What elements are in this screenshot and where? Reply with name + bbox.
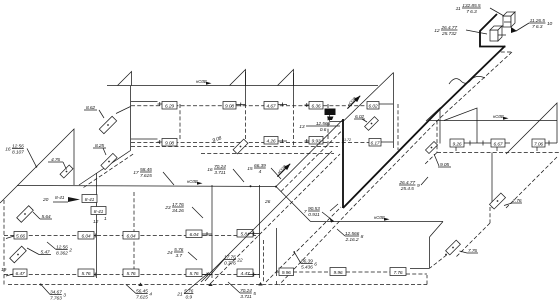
svg-text:нОЗВ: нОЗВ [196, 79, 207, 84]
radiator 6.67 [491, 139, 505, 147]
svg-text:5: 5 [253, 291, 256, 297]
svg-text:3.711: 3.711 [214, 170, 226, 176]
wire row dashed rb2 [406, 273, 427, 275]
svg-text:3: 3 [63, 293, 66, 299]
svg-text:16: 16 [207, 167, 213, 173]
pipe stub valve M3 [305, 104, 310, 106]
svg-text:4.47: 4.47 [240, 271, 249, 277]
svg-text:22: 22 [236, 258, 243, 264]
pipe stub valve M1 [236, 104, 246, 106]
radiator panel +76 wall [60, 165, 73, 178]
radiator 6.47 [13, 269, 27, 277]
wire H1 supply header top [107, 85, 378, 87]
flow arrow junction 1 [208, 283, 212, 287]
wire right return corner (dashed) [425, 153, 437, 165]
svg-text:21: 21 [176, 292, 183, 298]
label 8.62 [84, 105, 97, 111]
radiator 4.47 [237, 269, 253, 277]
svg-text:5.76: 5.76 [126, 271, 135, 277]
wire H2 supply header left block [17, 186, 276, 187]
riser x180 dashed [179, 104, 181, 141]
pipe branch S1 [276, 120, 343, 187]
label 9.05 [438, 162, 451, 168]
wire riser diag branch dashed [84, 154, 135, 188]
elevator unit [325, 109, 336, 116]
svg-text:9: 9 [417, 183, 420, 189]
wire rb connector a [464, 142, 491, 144]
radiator panel 9.05 [426, 142, 438, 154]
riser x492 [491, 153, 493, 207]
wall triangle T6 [506, 103, 557, 154]
label 3 section [41, 285, 66, 302]
radiator 9.96 [330, 268, 346, 276]
pipe stub valve M6 [305, 140, 310, 142]
pipe stub valve L1 [202, 233, 212, 235]
flow label on H2 [187, 179, 203, 185]
svg-text:9.08: 9.08 [225, 103, 234, 109]
wire H3 header [311, 221, 444, 223]
radiator 6.04 a [78, 232, 94, 240]
radiator +67 [264, 102, 278, 110]
svg-text:7: 7 [304, 209, 307, 215]
label 5 section [228, 282, 256, 300]
svg-text:11: 11 [456, 6, 461, 12]
pipe main return D2 (dashed) [279, 52, 512, 285]
flow arrow junction 2 [258, 282, 262, 286]
wire P5 stub [116, 107, 131, 114]
radiator 6.04 b [123, 232, 139, 240]
svg-text:7.06: 7.06 [534, 141, 543, 147]
wire room corner [430, 222, 444, 238]
wire rb stub b2 [505, 142, 510, 144]
wire S1 to H3 diag [276, 187, 311, 222]
radiator panel 5.64 wall [17, 206, 34, 223]
svg-text:15: 15 [247, 166, 253, 172]
svg-text:4.67: 4.67 [266, 103, 275, 109]
radiator 6.29 [162, 102, 177, 110]
svg-text:6: 6 [314, 262, 317, 268]
label 13 elevator [299, 121, 340, 133]
label 4 section [126, 285, 152, 301]
label 9 section [398, 177, 428, 192]
radiator 5.64 [237, 230, 253, 238]
pipe main supply D1 (thick) [343, 46, 505, 208]
svg-text:6.36: 6.36 [311, 103, 320, 109]
radiator panel 7.76 b [446, 240, 461, 255]
radiator 9.46 [279, 268, 294, 276]
svg-text:8.107: 8.107 [12, 150, 24, 156]
radiator 9.08 r1 [223, 102, 236, 110]
wall triangle T3 [278, 70, 294, 86]
riser x131 [130, 86, 132, 151]
label 17 section [133, 167, 174, 185]
radiator 5.76 c [186, 269, 202, 277]
radiator 5.76 b [123, 269, 139, 277]
valve box 8-41 b [91, 207, 106, 215]
svg-text:16: 16 [5, 147, 11, 153]
label 11 topright [456, 3, 504, 16]
pipe stub valve M0 [158, 103, 163, 105]
label 16b section [207, 164, 244, 182]
wire riser diag branch [79, 151, 131, 186]
radiator 6.17 [369, 139, 381, 147]
pipe stub valve L2 [248, 233, 260, 235]
riser St.1 x77 [96, 173, 98, 278]
svg-text:24: 24 [166, 250, 173, 256]
wire row B pipe (dashed) [4, 274, 260, 276]
svg-text:2: 2 [68, 248, 72, 254]
svg-text:8: 8 [361, 234, 364, 240]
wire rb dash stub1 [455, 147, 457, 153]
svg-text:4: 4 [149, 292, 152, 298]
svg-text:9.26: 9.26 [452, 141, 461, 147]
radiator +26 r2 [264, 137, 278, 145]
svg-text:25.4.5: 25.4.5 [400, 186, 414, 192]
svg-text:12: 12 [93, 219, 99, 225]
label 21 section [176, 273, 209, 301]
label 16 riser data [5, 144, 36, 167]
wire rb dash stub2 [496, 147, 498, 153]
wall triangle T4 [426, 108, 440, 144]
svg-text:нОЗВ: нОЗВ [346, 96, 357, 107]
pipe top thick bend [480, 14, 506, 47]
wire H3 inlet diag [322, 212, 334, 222]
svg-text:6.29: 6.29 [165, 103, 174, 109]
wire bottom dashed corner [426, 275, 428, 285]
pipe stub valve L4 [202, 274, 212, 276]
wall triangle T5 [444, 108, 477, 143]
riser dashed x134 [133, 192, 135, 272]
radiator 7.06 [532, 139, 545, 147]
pipe branch D3 [201, 151, 332, 282]
wire dashed to panel [430, 255, 447, 268]
svg-text:6.04: 6.04 [126, 233, 135, 239]
wire right return drop (dashed) [436, 121, 438, 153]
label 6 section [295, 253, 318, 271]
svg-text:25.732: 25.732 [441, 31, 457, 37]
riser St.3 x252 [259, 185, 261, 278]
svg-text:0.9: 0.9 [185, 295, 192, 301]
radiator 6.36 [309, 102, 323, 110]
radiator 5.76 a [78, 269, 94, 277]
riser x261 dashed [263, 240, 265, 282]
svg-text:6.02: 6.02 [368, 103, 377, 109]
wire box links [498, 34, 506, 36]
svg-text:7 6.3: 7 6.3 [532, 24, 543, 30]
label +76 [48, 157, 63, 163]
label 8 section [337, 229, 364, 243]
svg-text:6.47: 6.47 [15, 271, 24, 277]
radiator 6.02 r1 [367, 102, 379, 110]
flow label on H1 [196, 79, 212, 85]
pipe break squiggle [449, 76, 485, 84]
label 7.76 b [467, 248, 478, 254]
svg-text:26: 26 [264, 199, 271, 205]
wire roof diagonal [343, 73, 394, 122]
svg-text:9.96: 9.96 [282, 270, 291, 276]
pipe branch D3b (dashed) [211, 154, 340, 283]
svg-text:6.17: 6.17 [370, 140, 379, 146]
wire bottom return main (dashed) [8, 284, 427, 286]
label 24 section [166, 247, 197, 260]
flow label right header [493, 114, 509, 120]
wire right supply header [429, 120, 557, 122]
flow arrow junction 0 [138, 283, 142, 287]
wire stub A1 [6, 236, 14, 239]
svg-text:8-41: 8-41 [94, 209, 104, 215]
svg-text:6.04: 6.04 [189, 232, 198, 238]
radiator panel 5.47 wall [10, 246, 27, 263]
svg-text:9.96: 9.96 [333, 270, 342, 276]
svg-text:0.911: 0.911 [308, 212, 320, 218]
svg-text:7 6.3: 7 6.3 [466, 9, 477, 15]
riser x393 [393, 73, 395, 149]
svg-text:нОЗВ: нОЗВ [493, 114, 504, 119]
wire row2 pipe dashed [131, 142, 369, 144]
label 5.64 wall [40, 214, 52, 220]
radiator 5.66 [14, 232, 27, 240]
wire stub r2 [381, 141, 393, 143]
svg-text:8.362: 8.362 [56, 251, 68, 257]
svg-text:4.26: 4.26 [266, 138, 275, 144]
pipe stub valve L0 [94, 235, 97, 237]
wire dashed under boxes [491, 52, 511, 60]
wire stub B1 [6, 274, 13, 276]
svg-text:3.7: 3.7 [175, 253, 182, 259]
svg-text:23: 23 [164, 205, 171, 211]
radiator panel 8.25 [101, 153, 117, 169]
wire row1 pipe dashed [131, 105, 367, 107]
pipe main riser V1 (thick) [342, 119, 344, 208]
svg-text:нОЗВ: нОЗВ [374, 215, 385, 220]
wire rb connector b [545, 142, 557, 144]
label 8.25 [93, 143, 106, 149]
svg-text:7.76: 7.76 [393, 270, 402, 276]
svg-text:0.6: 0.6 [320, 127, 327, 133]
svg-text:нОЗВ: нОЗВ [276, 164, 287, 175]
label 7.76 c [512, 198, 522, 204]
riser x295 [293, 73, 295, 104]
svg-text:8-41: 8-41 [85, 197, 95, 203]
radiator panel mid [233, 139, 248, 154]
svg-text:3.711: 3.711 [240, 294, 252, 300]
pipe stub valve M5 [278, 140, 287, 142]
label 12 topright [434, 25, 487, 37]
pipe branch S1b (dashed) [281, 130, 343, 192]
svg-text:20: 20 [42, 197, 49, 203]
pipe return D4 (dashed) [266, 207, 341, 282]
svg-text:6.67: 6.67 [493, 141, 502, 147]
svg-text:34.26: 34.26 [172, 208, 184, 214]
air collector box A2 [490, 26, 502, 41]
svg-text:5.76: 5.76 [189, 271, 198, 277]
wall triangle T1 [118, 72, 132, 86]
svg-text:7.763: 7.763 [50, 296, 62, 302]
label 5.47 wall [39, 250, 51, 256]
radiator panel 6.02 wall [365, 117, 379, 131]
radiator 9.26 [450, 139, 464, 147]
wire right return (dashed) [437, 152, 560, 154]
label 2 section [47, 242, 72, 257]
riser St.2 x214 [211, 185, 213, 278]
wall triangle left big [0, 129, 74, 203]
wire left edge riser (dashed) [3, 200, 5, 285]
radiator panel 7.76 c [490, 193, 506, 209]
riser x328 dashed [327, 104, 329, 146]
svg-text:5.436: 5.436 [301, 265, 313, 271]
pipe stub valve M4 [158, 141, 163, 143]
wall triangle T2 [230, 70, 246, 86]
riser x297 [276, 228, 278, 276]
svg-text:7.615: 7.615 [140, 173, 152, 179]
wire rb dash stub3 [536, 147, 538, 153]
radiator panel 8.62 [99, 116, 116, 133]
radiator 7.76 a [390, 268, 406, 276]
flow arrow S1 bold [274, 160, 292, 178]
svg-text:2.16.2: 2.16.2 [345, 237, 359, 243]
riser x246 [245, 72, 247, 104]
svg-text:8-41: 8-41 [55, 195, 65, 201]
label 6.02 wall [354, 114, 365, 120]
pipe stub valve L5 [248, 274, 260, 276]
label 22 section [205, 255, 243, 282]
valve box 8-41 a [82, 195, 97, 203]
svg-text:5.66: 5.66 [16, 233, 25, 239]
svg-text:13: 13 [299, 124, 305, 130]
radiator 9.08 r2 [162, 139, 177, 147]
svg-text:5.76: 5.76 [81, 271, 90, 277]
wire lower return dashed [201, 153, 334, 155]
wire floor return dashed [131, 146, 338, 148]
wire stub r1 [379, 103, 393, 105]
svg-text:7.615: 7.615 [136, 295, 148, 301]
wire row dashed rb [293, 271, 330, 273]
label 15 section [247, 163, 281, 179]
label 7 section [304, 204, 338, 218]
wire dashed corner r [489, 207, 491, 223]
label 10 topright [516, 18, 553, 31]
svg-text:1: 1 [104, 216, 107, 222]
riser x398 dashed [397, 104, 399, 150]
svg-text:4: 4 [259, 169, 262, 175]
wire row A pipe (dashed) [4, 235, 260, 237]
pipe stub valve L3 [94, 274, 97, 276]
svg-text:10: 10 [547, 21, 553, 27]
radiator 6.04 c [186, 230, 202, 238]
svg-text:17: 17 [133, 170, 139, 176]
flow label on H3 [374, 215, 390, 221]
svg-text:9.08: 9.08 [165, 140, 174, 146]
radiator 9.93 [309, 137, 323, 145]
air collector box A1 [503, 12, 515, 27]
svg-text:19: 19 [1, 267, 7, 273]
svg-text:12: 12 [434, 28, 440, 34]
label 23 section [164, 202, 203, 218]
pipe stub valve M2 [278, 104, 287, 106]
svg-text:нОЗВ: нОЗВ [187, 179, 198, 184]
flow arrow main supply bold [344, 92, 362, 110]
svg-text:6.04: 6.04 [81, 233, 90, 239]
